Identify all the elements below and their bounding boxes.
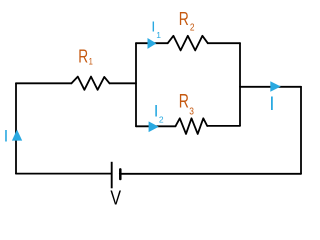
resistor R2 (168, 36, 208, 51)
svg-text:R: R (179, 8, 189, 30)
resistor R1 (72, 77, 110, 90)
wire: parallel left bar (135, 43, 137, 126)
arrow I1 (right) (148, 38, 157, 49)
svg-text:R: R (78, 46, 88, 66)
wire: output to right edge (240, 86, 301, 88)
svg-text:I: I (151, 18, 155, 35)
svg-text:2: 2 (159, 115, 164, 125)
svg-text:I: I (154, 101, 159, 120)
svg-text:V: V (110, 187, 121, 209)
wire: top branch right segment (208, 42, 240, 44)
wire: bottom left segment (16, 173, 112, 175)
wire: R1 to parallel left bar (110, 82, 137, 84)
wire: bottom right segment (120, 173, 301, 175)
svg-text:I: I (4, 126, 9, 145)
svg-text:3: 3 (189, 106, 194, 118)
wire: bottom branch left segment (136, 125, 176, 127)
battery V long plate (111, 162, 113, 189)
battery V short plate (119, 169, 122, 179)
svg-text:2: 2 (190, 22, 195, 34)
wire: bottom branch right segment (207, 125, 240, 127)
wire: left vertical (15, 83, 17, 173)
wire: top branch left segment (136, 42, 168, 44)
svg-text:1: 1 (89, 56, 93, 67)
resistor R3 (176, 118, 208, 134)
wire: right vertical (300, 87, 302, 174)
arrow I left (up) (12, 130, 22, 141)
svg-text:R: R (179, 90, 189, 112)
svg-text:I: I (269, 94, 274, 115)
arrow I2 (right) (149, 121, 159, 132)
wire: top-left horizontal to R1 (16, 82, 72, 84)
wire: parallel right bar (239, 43, 241, 125)
arrow I right (270, 81, 281, 92)
svg-text:1: 1 (156, 30, 161, 40)
